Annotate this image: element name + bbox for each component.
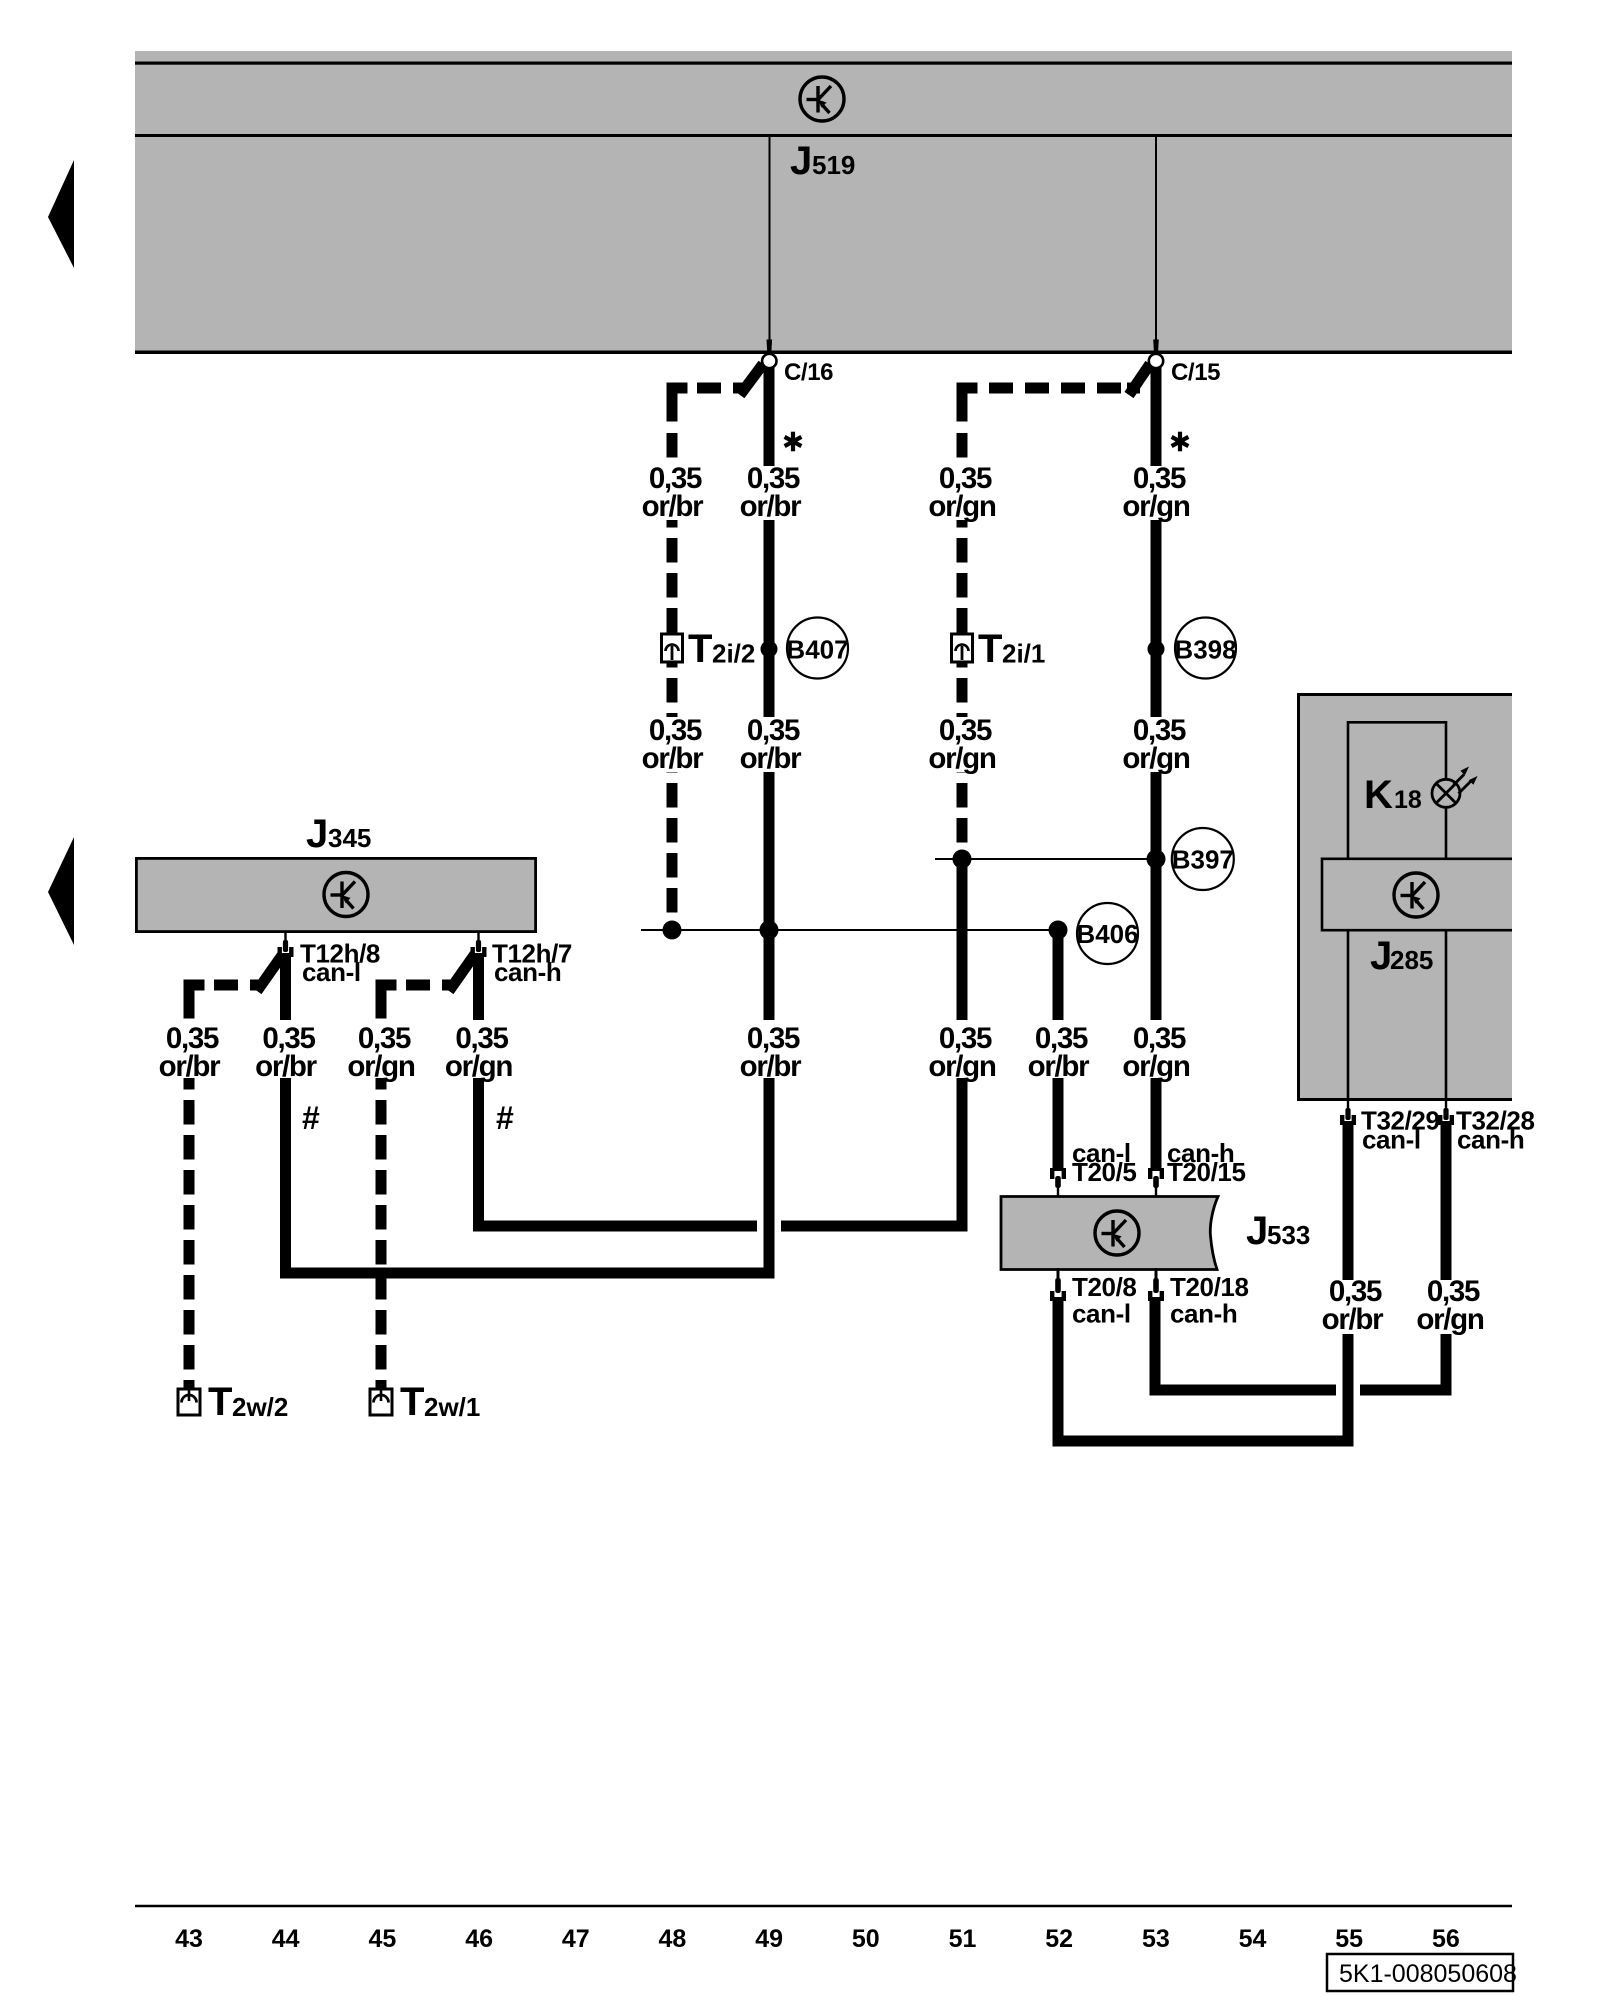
svg-text:or/gn: or/gn — [1122, 490, 1190, 523]
direction arrow left top — [48, 160, 74, 268]
svg-text:B397: B397 — [1172, 845, 1234, 875]
svg-text:or/br: or/br — [255, 1050, 318, 1083]
svg-text:345: 345 — [328, 823, 371, 853]
dashed wire or/gn twisted pair at C/15, corner piece — [957, 383, 1141, 422]
dashed wire or/br vertical x189 down to T2w/2 — [184, 1030, 195, 1390]
svg-text:C/16: C/16 — [784, 359, 833, 386]
svg-text:J: J — [790, 139, 812, 183]
junction dot B406 end of dashed wire — [663, 921, 682, 940]
wire CAN-H continuation left of gap — [479, 952, 758, 1226]
lamp symbol K18 — [1432, 767, 1478, 808]
svg-text:or/gn: or/gn — [445, 1050, 513, 1083]
svg-text:or/br: or/br — [159, 1050, 222, 1083]
pin T20/5 terminal — [1050, 1168, 1066, 1197]
label J345 — [306, 812, 371, 856]
control unit J533 data bus diagnostic interface box — [1001, 1197, 1218, 1270]
pin C/16 ring terminal — [762, 340, 776, 369]
wire can-h continuation from gap up to J533 T20/18 — [1155, 1299, 1336, 1390]
inline connector T2i/1 on dashed wire — [952, 627, 1046, 671]
wire inside J285 left — [1347, 930, 1350, 1098]
svg-text:56: 56 — [1432, 1925, 1460, 1953]
pin T32/28 terminal — [1438, 1101, 1454, 1125]
svg-text:can-h: can-h — [1457, 1125, 1524, 1155]
svg-text:2i/1: 2i/1 — [1002, 639, 1045, 669]
label can-h T20/15 at J533 top right pin — [1167, 1138, 1246, 1187]
svg-text:B406: B406 — [1076, 919, 1138, 949]
junction dot B397 on dashed wire — [953, 850, 972, 869]
wire inside J519 to pin C/15 — [1155, 137, 1157, 344]
wire label 0,35 or/gn col53 row C — [1119, 1020, 1193, 1083]
label can-l T20/5 at J533 top left pin — [1072, 1138, 1137, 1187]
wire label 0,35 or/gn col51 row C — [925, 1020, 999, 1083]
svg-text:2w/2: 2w/2 — [232, 1392, 288, 1422]
svg-text:or/gn: or/gn — [928, 490, 996, 523]
svg-text:K: K — [1364, 773, 1393, 817]
svg-text:or/gn: or/gn — [928, 1050, 996, 1083]
svg-text:T20/5: T20/5 — [1072, 1157, 1137, 1187]
wire or/gn from C/15 down to J533 T20/15 — [1151, 358, 1162, 1170]
diagnostic symbol in J519 — [800, 77, 844, 121]
svg-text:#: # — [302, 1100, 320, 1136]
svg-text:46: 46 — [465, 1925, 493, 1953]
wire label 0,35 or/br col49 row C — [733, 1020, 807, 1083]
svg-text:47: 47 — [562, 1925, 590, 1953]
connector T2w/1 end icon — [370, 1380, 480, 1424]
svg-text:48: 48 — [658, 1925, 686, 1953]
svg-text:519: 519 — [812, 150, 855, 180]
wire label 0,35 or/br col48 row A — [635, 462, 709, 523]
junction dot at B407 — [761, 641, 778, 658]
svg-text:can-l: can-l — [1362, 1125, 1421, 1155]
dashed wire or/gn twisted pair at T12h/7, corner piece — [376, 980, 457, 1019]
svg-text:J: J — [1370, 934, 1392, 978]
svg-text:52: 52 — [1045, 1925, 1073, 1953]
junction dot B406 on or/br wire — [760, 921, 779, 940]
wire label 0,35 or/gn col56 row D — [1413, 1275, 1487, 1336]
wire inside J519 to pin C/16 — [769, 137, 771, 344]
svg-text:44: 44 — [272, 1925, 300, 1953]
control unit J519 onboard supply control unit box — [135, 51, 1512, 354]
pin T12h/7 terminal — [471, 933, 487, 957]
svg-text:53: 53 — [1142, 1925, 1170, 1953]
bottom grid line — [135, 1905, 1512, 1908]
svg-text:or/br: or/br — [740, 742, 803, 775]
star mark right — [1172, 432, 1189, 452]
svg-text:can-h: can-h — [1170, 1299, 1237, 1329]
wire label 0,35 or/gn col45 row C — [344, 1020, 418, 1083]
svg-text:or/gn: or/gn — [928, 742, 996, 775]
label T12h/7 can-h — [492, 939, 572, 988]
control unit J285 instrument cluster box with K18 — [1297, 693, 1512, 1101]
svg-text:T: T — [978, 627, 1002, 671]
pin T32/29 terminal — [1340, 1101, 1356, 1125]
diagonal joint into T12h/8 — [257, 954, 283, 991]
pin C/15 ring terminal — [1149, 340, 1163, 369]
svg-text:J: J — [306, 812, 328, 856]
svg-text:J: J — [1246, 1209, 1268, 1253]
svg-text:B398: B398 — [1174, 635, 1236, 665]
wire or/br from junction B406 down to J533 T20/5 — [1053, 926, 1064, 1170]
label T32/29 can-l — [1361, 1106, 1440, 1155]
wire label 0,35 or/br col43 row C — [152, 1020, 226, 1083]
pin T12h/8 terminal — [278, 933, 294, 957]
svg-text:or/br: or/br — [1028, 1050, 1091, 1083]
label T12h/8 can-l — [300, 939, 380, 988]
grid numbers 43 to 56 — [175, 1925, 1460, 1953]
svg-text:can-l: can-l — [1072, 1299, 1131, 1329]
svg-text:T20/18: T20/18 — [1170, 1272, 1249, 1302]
wire label 0,35 or/br col55 row D — [1315, 1275, 1389, 1336]
connector T2w/2 end icon — [178, 1380, 288, 1424]
node line B397 — [935, 858, 1156, 860]
svg-text:#: # — [496, 1100, 514, 1136]
label T20/8 can-l — [1072, 1272, 1137, 1329]
wire label 0,35 or/gn col51 row A — [925, 462, 999, 523]
svg-text:49: 49 — [755, 1925, 783, 1953]
diagnostic symbol in J533 — [1095, 1211, 1139, 1255]
svg-text:T: T — [400, 1380, 424, 1424]
svg-text:can-h: can-h — [494, 957, 561, 987]
label T32/28 can-h — [1456, 1106, 1535, 1155]
svg-text:B407: B407 — [786, 635, 848, 665]
svg-text:51: 51 — [949, 1925, 977, 1953]
diagnostic symbol in J345 — [324, 873, 368, 917]
wire label 0,35 or/gn col53 row A — [1119, 462, 1193, 523]
label J533 — [1246, 1209, 1310, 1253]
pin T20/18 terminal — [1148, 1268, 1164, 1301]
dashed wire or/gn vertical x962 down to B397 — [957, 433, 968, 855]
svg-text:or/br: or/br — [740, 490, 803, 523]
dashed wire or/br twisted pair at T12h/8, corner piece — [184, 980, 265, 1019]
svg-text:can-l: can-l — [302, 957, 361, 987]
wire label 0,35 or/br col44 row C — [249, 1020, 323, 1083]
svg-text:or/gn: or/gn — [1122, 1050, 1190, 1083]
svg-text:T20/15: T20/15 — [1167, 1157, 1246, 1187]
junction circle B406 — [1076, 903, 1138, 964]
svg-text:or/br: or/br — [642, 742, 705, 775]
pin T20/15 terminal — [1148, 1168, 1164, 1197]
dashed wire or/br twisted pair at C/16, corner piece — [667, 383, 748, 422]
svg-text:or/gn: or/gn — [1416, 1303, 1484, 1336]
label J519 — [790, 139, 855, 183]
wire label 0,35 or/gn col51 row B — [925, 714, 999, 775]
connector band inside J285 — [1322, 859, 1512, 930]
pin T20/8 terminal — [1050, 1268, 1066, 1301]
svg-text:43: 43 — [175, 1925, 203, 1953]
svg-text:T: T — [688, 627, 712, 671]
control unit J345 trailer detector control unit box — [135, 857, 537, 933]
svg-text:or/gn: or/gn — [347, 1050, 415, 1083]
svg-text:or/gn: or/gn — [1122, 742, 1190, 775]
svg-text:T: T — [208, 1380, 232, 1424]
svg-text:T20/8: T20/8 — [1072, 1272, 1137, 1302]
svg-text:or/br: or/br — [1322, 1303, 1385, 1336]
wire label 0,35 or/gn col46 row C — [442, 1020, 516, 1083]
diagonal joint into C/16 — [740, 364, 763, 395]
svg-text:18: 18 — [1394, 786, 1422, 814]
wire label 0,35 or/br col52 row C — [1021, 1020, 1095, 1083]
svg-text:2w/1: 2w/1 — [424, 1392, 480, 1422]
svg-text:54: 54 — [1239, 1925, 1267, 1953]
wire CAN-H or/gn solid from B397 down x962, left along y1226 (gap at x769), up to J345 T12h/7 — [781, 855, 962, 1226]
junction circle B398 — [1174, 618, 1236, 679]
dashed wire or/br vertical x672 down to B406 — [667, 433, 678, 925]
svg-text:50: 50 — [852, 1925, 880, 1953]
svg-text:55: 55 — [1335, 1925, 1363, 1953]
label J285 — [1370, 934, 1433, 978]
svg-text:or/br: or/br — [740, 1050, 803, 1083]
wire can-h from J285 T32/28 down, left along y1390 to gap — [1360, 1123, 1446, 1390]
svg-text:C/15: C/15 — [1171, 359, 1220, 386]
svg-text:2i/2: 2i/2 — [712, 639, 755, 669]
star mark left — [785, 432, 802, 452]
wire can-l from J285 T32/29 down, left along y1448, up to J533 T20/8 — [1058, 1123, 1348, 1441]
wire label 0,35 or/br col49 row B — [733, 714, 807, 775]
wire label 0,35 or/gn col53 row B — [1119, 714, 1193, 775]
label T20/18 can-h — [1170, 1272, 1249, 1329]
junction circle B407 — [786, 618, 848, 679]
wire label 0,35 or/br col49 row A — [733, 462, 807, 523]
junction dot B406 start of J533 wire — [1049, 921, 1068, 940]
node line B406 — [641, 929, 1058, 931]
warning lamp K18 sub-box — [1348, 722, 1446, 858]
drawing code box 5K1-008050608 — [1327, 1954, 1517, 1991]
junction dot B397 on or/gn wire — [1147, 850, 1166, 869]
wire inside J285 right — [1445, 930, 1448, 1098]
svg-text:533: 533 — [1267, 1220, 1310, 1250]
wire CAN-L or/br from C/16 down, left along y1272, up to J345 T12h/8 — [286, 358, 770, 1273]
diagonal joint into T12h/7 — [449, 954, 475, 991]
wire label 0,35 or/br col48 row B — [635, 714, 709, 775]
diagnostic symbol in J285 — [1394, 873, 1438, 917]
junction circle B397 — [1172, 828, 1234, 890]
diagonal joint into C/15 — [1129, 364, 1150, 395]
direction arrow left middle — [48, 837, 74, 945]
dashed wire or/gn vertical x381 down to T2w/1 — [376, 1030, 387, 1390]
label K18 — [1364, 773, 1422, 817]
svg-text:285: 285 — [1390, 945, 1433, 975]
svg-text:45: 45 — [368, 1925, 396, 1953]
svg-text:5K1-008050608: 5K1-008050608 — [1339, 1960, 1517, 1988]
svg-text:or/br: or/br — [642, 490, 705, 523]
inline connector T2i/2 on dashed wire — [662, 627, 756, 671]
junction dot at B398 — [1148, 641, 1165, 658]
